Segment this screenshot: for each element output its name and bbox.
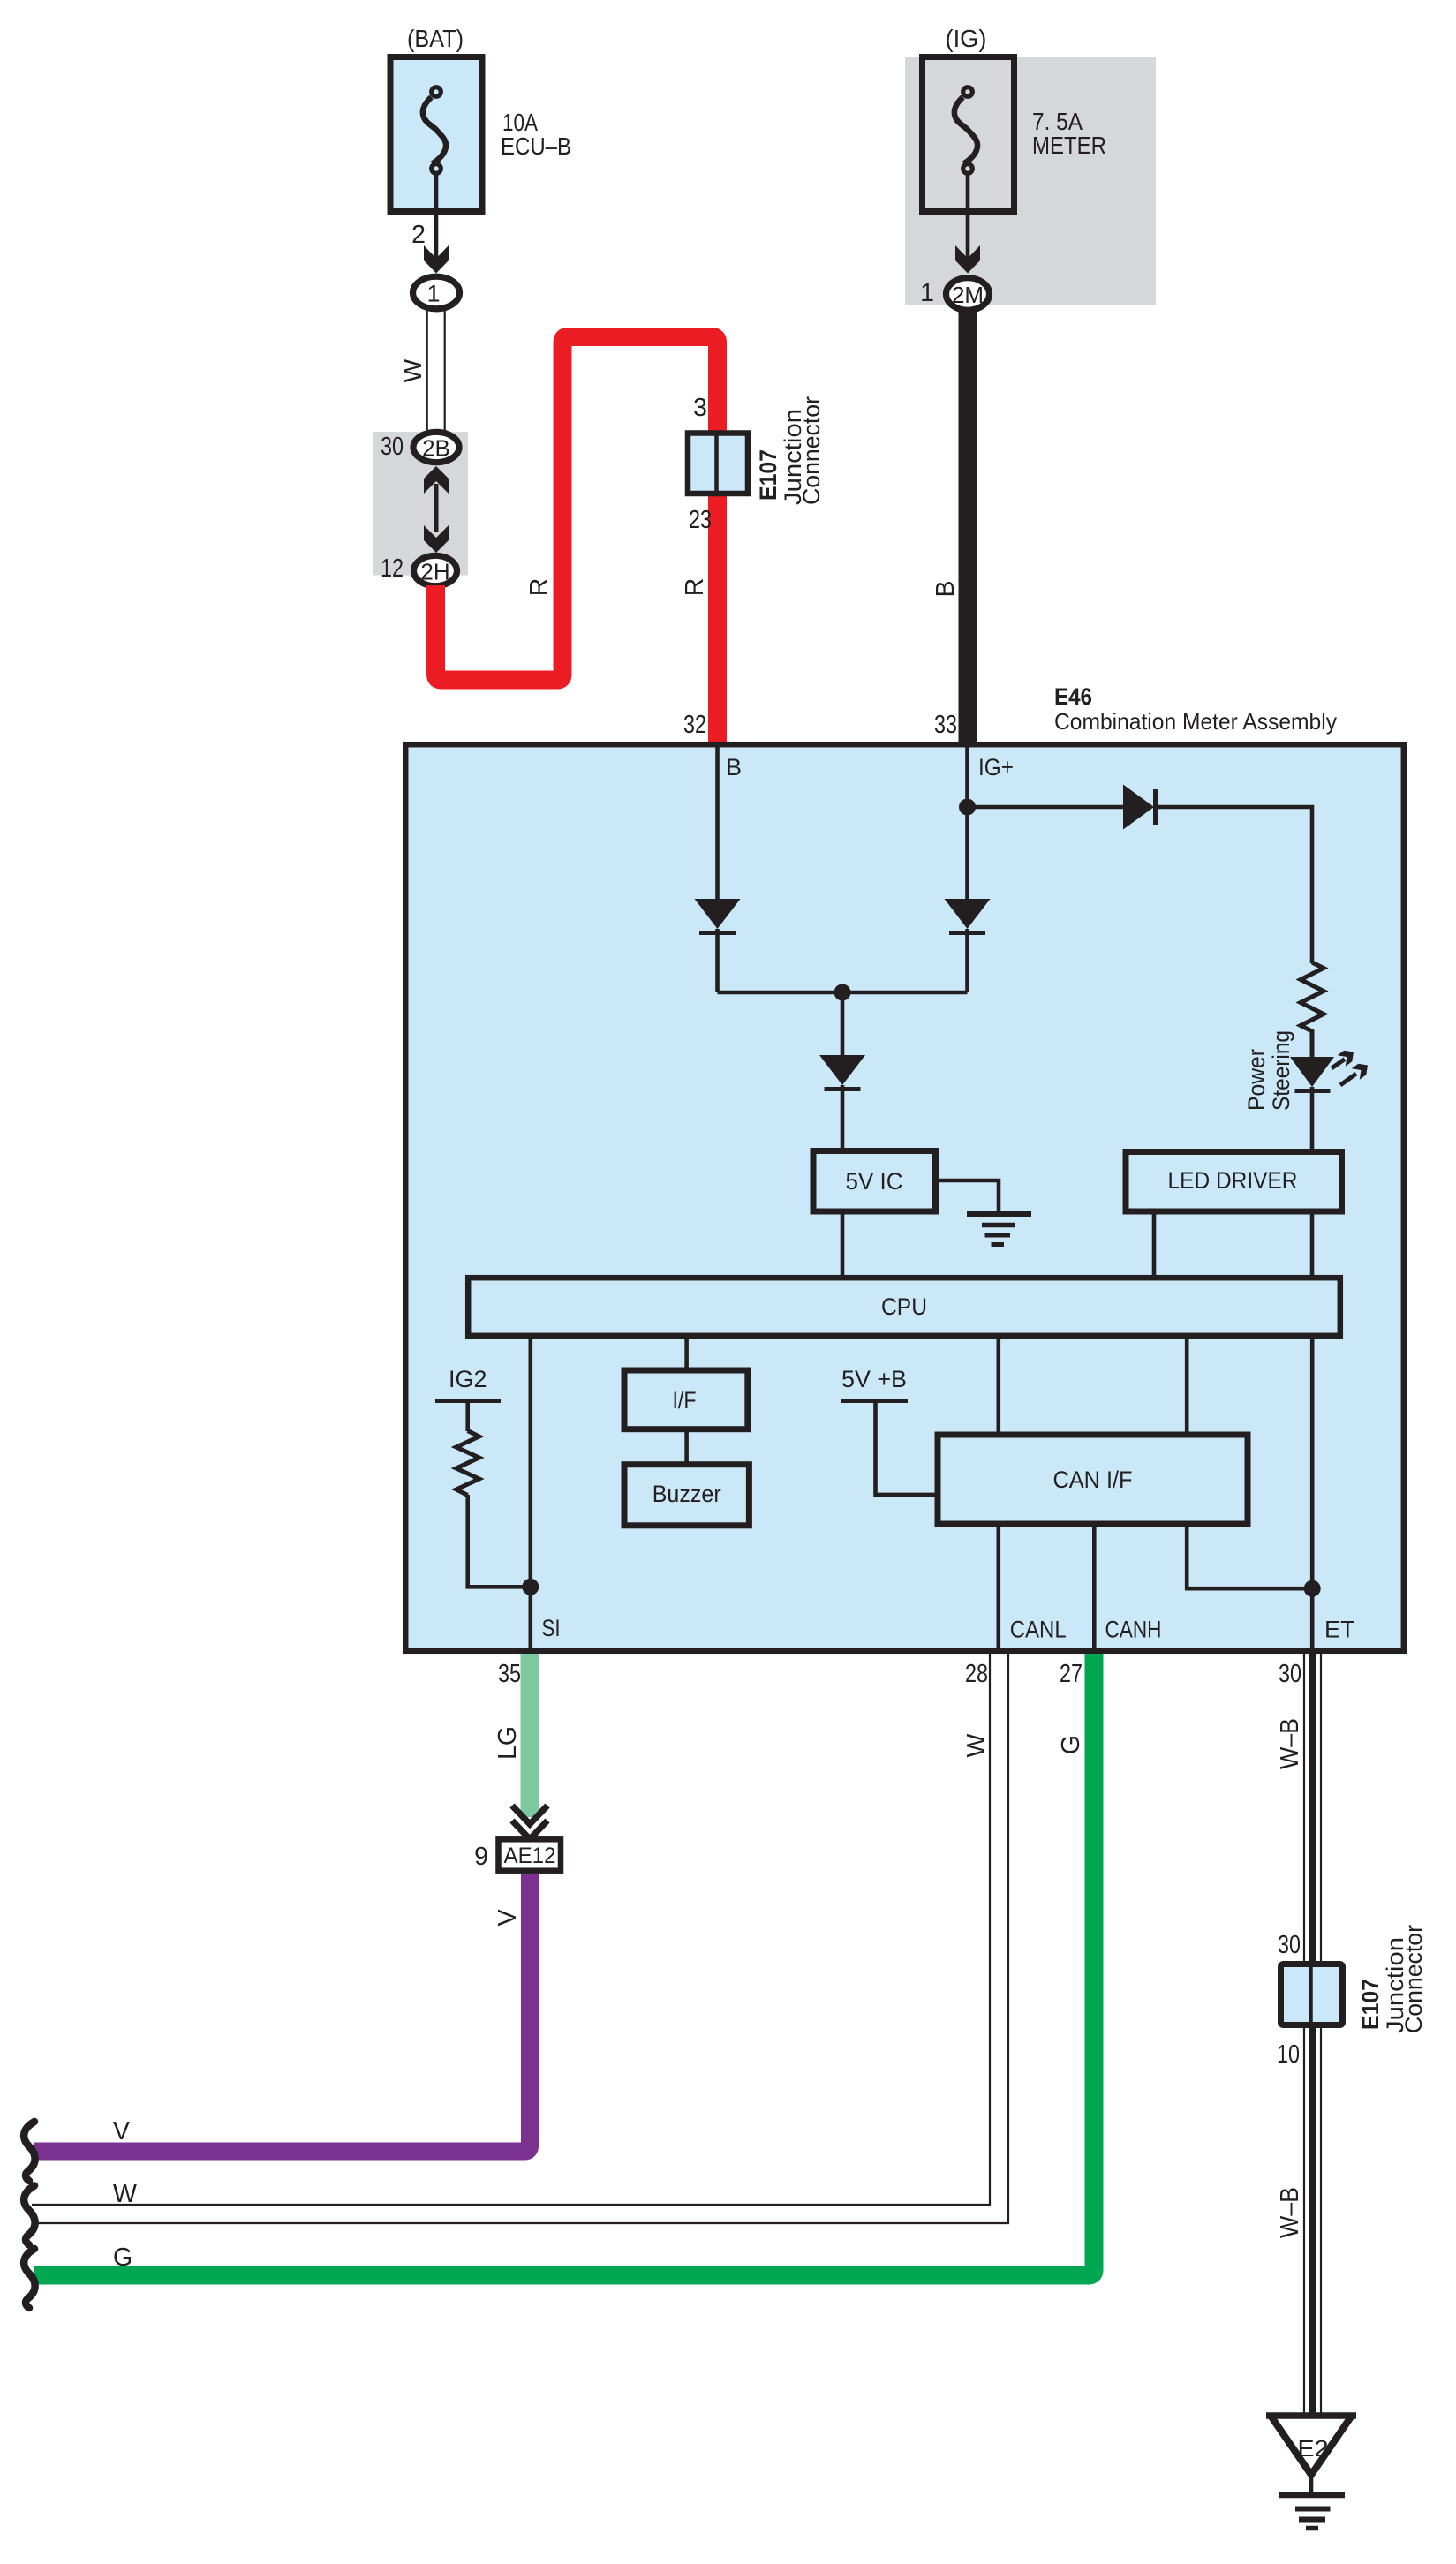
node dot at diode join bbox=[834, 984, 851, 1001]
wire from 5V IC to ground G1 bbox=[939, 1180, 999, 1211]
svg-text:IG+: IG+ bbox=[978, 754, 1014, 781]
junction connector E107 (lower) name labels bbox=[1357, 1979, 1384, 2030]
wire CAN I/F to ET line bbox=[1187, 1524, 1312, 1588]
svg-text:V: V bbox=[494, 1909, 522, 1926]
wire R (red) from 2H to E46 pin 32 bbox=[436, 337, 718, 743]
wire 5V +B to CAN I/F bbox=[876, 1401, 935, 1495]
harness squiggle V bbox=[24, 2122, 34, 2181]
wire W from oval 1 to 2B (white wire double line) bbox=[426, 311, 428, 430]
wire W-B from pin 30 to E2 (white w/ black stripe) bbox=[1303, 1654, 1305, 2416]
wire from fuse F1 to connector oval 1 bbox=[434, 173, 439, 259]
double-headed arrow between 2B and 2H bbox=[424, 466, 449, 494]
svg-text:(BAT): (BAT) bbox=[407, 25, 464, 52]
wire from fuse F2 to oval 2M bbox=[966, 173, 970, 259]
wire color label B bbox=[932, 580, 960, 597]
svg-text:1: 1 bbox=[920, 279, 934, 307]
svg-text:V: V bbox=[113, 2117, 130, 2145]
harness squiggle G bbox=[24, 2249, 34, 2308]
fuse F2 element symbol bbox=[954, 87, 977, 174]
svg-text:W–B: W–B bbox=[1276, 1718, 1304, 1769]
resistor R2 (IG2 pull) bbox=[456, 1431, 479, 1496]
connector oval 2H bbox=[414, 555, 457, 585]
arrowhead into oval 1 bbox=[424, 245, 449, 274]
wire color label W-B (upper) bbox=[1276, 1718, 1304, 1769]
svg-text:2B: 2B bbox=[422, 435, 450, 462]
svg-text:3: 3 bbox=[693, 394, 707, 422]
wire joining D1 and D2 bbox=[718, 991, 968, 995]
wire E2 to ground bbox=[1309, 2475, 1314, 2495]
svg-text:2H: 2H bbox=[420, 559, 449, 585]
diode D3 (horizontal) bbox=[1123, 785, 1154, 830]
ground G1 bbox=[967, 1211, 1031, 1217]
connector oval 2B bbox=[413, 432, 459, 462]
svg-text:Power: Power bbox=[1243, 1049, 1270, 1111]
svg-text:B: B bbox=[932, 580, 960, 597]
svg-text:B: B bbox=[726, 754, 742, 781]
wire from D3 to power steering branch bbox=[1155, 807, 1312, 963]
wire color label W (vertical run) bbox=[962, 1733, 991, 1757]
wire W from pin 28 to harness (double line) bbox=[32, 1654, 990, 2205]
svg-text:LG: LG bbox=[494, 1726, 522, 1760]
Power Steering label bbox=[1243, 1049, 1270, 1111]
wire color label V (vertical run) bbox=[494, 1909, 522, 1926]
harness squiggle W bbox=[24, 2186, 34, 2245]
CAN I/F box bbox=[938, 1435, 1248, 1524]
wire CANL from CAN I/F to pin 28 bbox=[997, 1524, 1001, 1651]
svg-text:E46: E46 bbox=[1054, 683, 1092, 710]
wire CPU to I/F bbox=[684, 1336, 689, 1370]
junction connector E107 (upper) bbox=[688, 434, 748, 494]
wire V from AE12 to harness bbox=[34, 1874, 530, 2152]
ground point E2 triangle bbox=[1271, 2416, 1352, 2475]
double chevron arrow into AE12 bbox=[512, 1806, 547, 1839]
svg-text:5V IC: 5V IC bbox=[846, 1168, 903, 1195]
wire SI from CPU to pin 35 bbox=[528, 1336, 532, 1651]
svg-text:G: G bbox=[1057, 1735, 1085, 1754]
svg-text:CANH: CANH bbox=[1105, 1617, 1162, 1643]
LED DRIVER box bbox=[1126, 1152, 1342, 1212]
fuse F1 10A ECU-B box bbox=[390, 57, 482, 212]
CPU box bbox=[468, 1278, 1340, 1336]
wire resistor R2 to SI line bbox=[468, 1495, 531, 1587]
svg-text:I/F: I/F bbox=[673, 1387, 697, 1414]
LED D5 emission arrows bbox=[1332, 1060, 1356, 1086]
node dot on IG+ line bbox=[959, 799, 976, 816]
svg-text:2M: 2M bbox=[952, 282, 984, 308]
node dot on SI line bbox=[522, 1579, 539, 1595]
node dot on ET line bbox=[1304, 1580, 1321, 1597]
I/F box bbox=[624, 1370, 748, 1429]
E46 combination meter assembly box bbox=[405, 744, 1404, 1651]
svg-text:32: 32 bbox=[683, 711, 706, 739]
svg-text:CANL: CANL bbox=[1010, 1617, 1067, 1643]
arrowhead into oval 2M bbox=[955, 245, 980, 274]
wire IG2 to resistor R2 bbox=[465, 1401, 470, 1432]
svg-text:E2: E2 bbox=[1298, 2435, 1329, 2462]
connector oval 1 bbox=[413, 276, 460, 309]
svg-text:CAN I/F: CAN I/F bbox=[1053, 1467, 1133, 1493]
fuse F2 7.5A METER box bbox=[923, 57, 1015, 212]
svg-text:LED DRIVER: LED DRIVER bbox=[1168, 1167, 1298, 1194]
5V +B supply bar bbox=[841, 1399, 908, 1403]
wire from node down to diode D4 bbox=[841, 992, 845, 1056]
svg-text:10: 10 bbox=[1277, 2040, 1300, 2069]
svg-text:30: 30 bbox=[1279, 1660, 1301, 1688]
svg-text:30: 30 bbox=[381, 433, 404, 461]
svg-text:9: 9 bbox=[474, 1843, 488, 1871]
wire color label W-B (lower) bbox=[1276, 2187, 1304, 2238]
svg-text:G: G bbox=[113, 2243, 132, 2272]
wires LED DRIVER to CPU bbox=[1152, 1211, 1157, 1278]
wire G from pin 27 to harness bbox=[34, 1654, 1094, 2275]
svg-text:W–B: W–B bbox=[1276, 2187, 1304, 2238]
svg-text:SI: SI bbox=[542, 1615, 561, 1641]
svg-text:Steering: Steering bbox=[1268, 1030, 1294, 1111]
wire color label R (left run) bbox=[525, 578, 554, 597]
svg-text:Combination Meter Assembly: Combination Meter Assembly bbox=[1054, 708, 1337, 735]
wires CPU to CAN I/F bbox=[997, 1336, 1001, 1435]
svg-text:AE12: AE12 bbox=[504, 1844, 556, 1868]
svg-text:27: 27 bbox=[1060, 1660, 1083, 1688]
svg-text:1: 1 bbox=[426, 281, 440, 307]
diode D4 bbox=[819, 1055, 865, 1085]
wire color label R (right run) bbox=[681, 578, 709, 597]
diode D2 (on IG+ line) bbox=[945, 899, 991, 929]
svg-text:Connector: Connector bbox=[798, 396, 825, 505]
resistor R1 (power steering) bbox=[1301, 962, 1324, 1057]
svg-text:R: R bbox=[525, 578, 554, 597]
wire CANH from CAN I/F to pin 27 bbox=[1092, 1524, 1097, 1651]
wire color label LG bbox=[494, 1726, 522, 1760]
svg-text:33: 33 bbox=[934, 711, 957, 739]
wire ET from CPU to pin 30 bbox=[1310, 1336, 1315, 1651]
IG2 supply bar bbox=[435, 1399, 501, 1403]
diode D1 (on B line) bbox=[695, 899, 741, 929]
wire 5V IC to CPU bbox=[841, 1211, 845, 1278]
svg-text:IG2: IG2 bbox=[449, 1366, 487, 1392]
Buzzer box bbox=[624, 1465, 749, 1526]
svg-text:28: 28 bbox=[965, 1660, 988, 1688]
fuse F1 element symbol bbox=[423, 87, 446, 174]
svg-text:CPU: CPU bbox=[881, 1293, 927, 1320]
junction connector E107 (lower) bbox=[1281, 1964, 1343, 2025]
gray shaded block around IG fuse bbox=[905, 57, 1156, 305]
svg-text:E107: E107 bbox=[1357, 1979, 1384, 2030]
connector AE12 bbox=[499, 1839, 562, 1870]
svg-text:ET: ET bbox=[1324, 1617, 1355, 1643]
LED D5 power steering indicator bbox=[1290, 1057, 1334, 1087]
ground G2 symbol bbox=[1279, 2492, 1345, 2499]
wire color label G (vertical run) bbox=[1057, 1735, 1085, 1754]
svg-text:R: R bbox=[681, 578, 709, 597]
wire LG from pin 35 bbox=[521, 1654, 539, 1817]
svg-text:5V +B: 5V +B bbox=[841, 1366, 907, 1392]
svg-text:Buzzer: Buzzer bbox=[653, 1481, 721, 1507]
svg-text:12: 12 bbox=[381, 554, 404, 583]
svg-text:E107: E107 bbox=[755, 449, 781, 501]
svg-text:(IG): (IG) bbox=[946, 25, 987, 52]
svg-text:ECU–B: ECU–B bbox=[501, 132, 571, 160]
gray shaded block around 2B/2H bbox=[373, 432, 468, 576]
svg-text:W: W bbox=[962, 1733, 991, 1757]
svg-text:Connector: Connector bbox=[1400, 1925, 1427, 2033]
5V IC box bbox=[813, 1151, 936, 1212]
wire from IG+ node to diode D3 bbox=[968, 805, 1125, 810]
wire B (black) from 2M to E46 pin 33 bbox=[959, 310, 977, 742]
svg-text:23: 23 bbox=[689, 506, 712, 534]
wire IG+ pin line bbox=[965, 747, 969, 900]
junction connector E107 name labels bbox=[755, 449, 781, 501]
svg-text:30: 30 bbox=[1278, 1931, 1301, 1959]
connector oval 2M bbox=[947, 278, 990, 311]
wire B pin line bbox=[715, 747, 720, 900]
svg-text:2: 2 bbox=[411, 221, 426, 249]
wire color label W bbox=[399, 358, 427, 382]
svg-text:W: W bbox=[399, 358, 427, 382]
wire I/F to Buzzer bbox=[684, 1429, 689, 1465]
svg-text:W: W bbox=[113, 2180, 137, 2208]
svg-text:35: 35 bbox=[498, 1660, 521, 1688]
svg-text:METER: METER bbox=[1032, 132, 1106, 159]
